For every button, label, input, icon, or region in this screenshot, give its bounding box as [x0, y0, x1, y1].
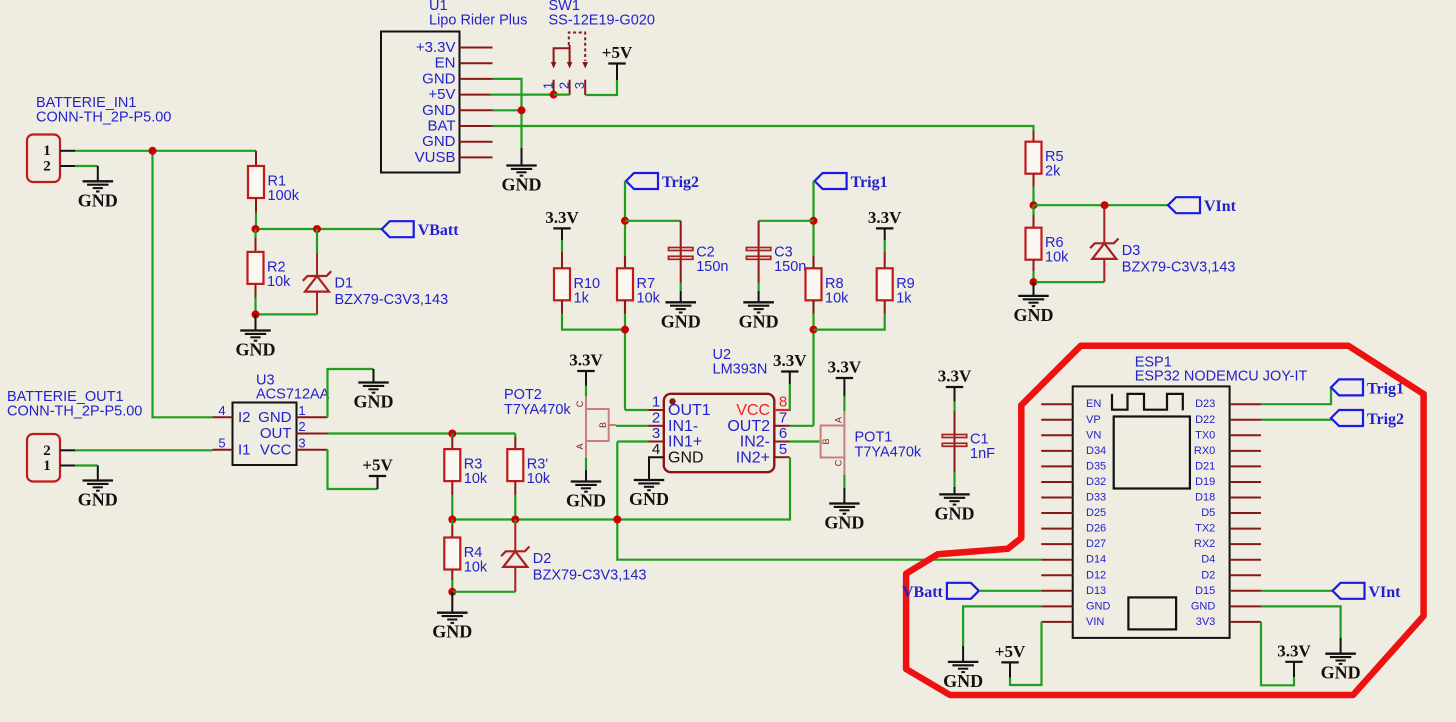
svg-text:ACS712AA: ACS712AA: [256, 387, 330, 403]
svg-text:T7YA470k: T7YA470k: [504, 402, 571, 418]
svg-text:GND: GND: [258, 409, 292, 426]
svg-text:IN1+: IN1+: [668, 434, 702, 451]
svg-text:IN2+: IN2+: [736, 449, 770, 466]
svg-text:D15: D15: [1195, 585, 1215, 597]
svg-text:GND: GND: [432, 622, 472, 642]
svg-text:Lipo Rider Plus: Lipo Rider Plus: [429, 13, 527, 29]
svg-text:GND: GND: [1086, 600, 1111, 612]
svg-text:BZX79-C3V3,143: BZX79-C3V3,143: [335, 292, 449, 308]
svg-text:+5V: +5V: [602, 43, 633, 62]
svg-text:6: 6: [779, 425, 787, 442]
svg-text:VIN: VIN: [1086, 616, 1104, 628]
svg-text:+5V: +5V: [428, 86, 455, 103]
svg-text:3.3V: 3.3V: [569, 351, 603, 370]
svg-text:3.3V: 3.3V: [773, 351, 807, 370]
svg-text:D19: D19: [1195, 476, 1215, 488]
svg-text:D3: D3: [1122, 243, 1141, 259]
svg-text:TX2: TX2: [1195, 523, 1215, 535]
svg-text:TX0: TX0: [1195, 429, 1215, 441]
svg-text:GND: GND: [629, 489, 669, 509]
svg-text:VCC: VCC: [736, 402, 770, 419]
svg-text:1: 1: [298, 403, 305, 418]
svg-text:4: 4: [218, 403, 225, 418]
svg-text:+3.3V: +3.3V: [416, 39, 456, 56]
svg-text:5: 5: [779, 441, 787, 458]
svg-text:7: 7: [779, 410, 787, 427]
svg-text:3: 3: [572, 82, 587, 89]
svg-text:GND: GND: [354, 392, 394, 412]
svg-text:D1: D1: [335, 276, 354, 292]
svg-text:GND: GND: [422, 70, 456, 87]
svg-text:I1: I1: [238, 441, 251, 458]
svg-text:D23: D23: [1195, 398, 1215, 410]
svg-text:GND: GND: [422, 133, 456, 150]
svg-text:3: 3: [652, 425, 660, 442]
svg-text:VBatt: VBatt: [418, 222, 460, 239]
svg-text:3.3V: 3.3V: [1277, 641, 1311, 660]
svg-text:D5: D5: [1201, 507, 1215, 519]
svg-text:D22: D22: [1195, 414, 1215, 426]
svg-text:EN: EN: [1086, 398, 1101, 410]
svg-text:GND: GND: [78, 190, 118, 210]
svg-text:A: A: [834, 417, 844, 423]
svg-text:3V3: 3V3: [1196, 616, 1216, 628]
svg-text:2k: 2k: [1045, 164, 1061, 180]
svg-text:LM393N: LM393N: [713, 362, 768, 378]
svg-text:+5V: +5V: [362, 456, 393, 475]
svg-text:D35: D35: [1086, 460, 1106, 472]
svg-text:1: 1: [652, 394, 660, 411]
svg-text:GND: GND: [236, 340, 276, 360]
svg-text:10k: 10k: [464, 471, 488, 487]
svg-text:150n: 150n: [696, 259, 728, 275]
svg-text:2: 2: [43, 443, 51, 459]
svg-text:10k: 10k: [464, 560, 488, 576]
svg-text:D2: D2: [533, 551, 552, 567]
svg-text:D13: D13: [1086, 585, 1106, 597]
svg-text:150n: 150n: [774, 259, 806, 275]
svg-text:GND: GND: [422, 102, 456, 119]
svg-text:D34: D34: [1086, 445, 1106, 457]
svg-text:1: 1: [541, 82, 556, 89]
svg-text:EN: EN: [435, 55, 456, 72]
svg-text:D27: D27: [1086, 538, 1106, 550]
svg-text:D12: D12: [1086, 569, 1106, 581]
svg-text:Trig1: Trig1: [851, 174, 888, 191]
svg-text:GND: GND: [943, 671, 983, 691]
svg-text:Trig2: Trig2: [662, 174, 699, 191]
svg-text:I2: I2: [238, 409, 251, 426]
svg-text:RX0: RX0: [1194, 445, 1215, 457]
svg-text:Trig1: Trig1: [1367, 380, 1404, 397]
svg-text:VBatt: VBatt: [902, 584, 944, 601]
svg-text:GND: GND: [824, 513, 864, 533]
svg-text:2: 2: [652, 410, 660, 427]
svg-text:D21: D21: [1195, 460, 1215, 472]
svg-text:C: C: [575, 400, 585, 407]
svg-text:2: 2: [298, 419, 305, 434]
svg-text:CONN-TH_2P-P5.00: CONN-TH_2P-P5.00: [7, 404, 142, 420]
svg-text:ESP32 NODEMCU JOY-IT: ESP32 NODEMCU JOY-IT: [1135, 369, 1308, 385]
svg-text:B: B: [598, 422, 608, 428]
svg-text:GND: GND: [668, 449, 704, 466]
svg-text:10k: 10k: [267, 274, 291, 290]
svg-text:GND: GND: [502, 175, 542, 195]
svg-text:GND: GND: [566, 491, 606, 511]
svg-text:VUSB: VUSB: [415, 149, 456, 166]
svg-text:10k: 10k: [825, 290, 849, 306]
svg-text:1k: 1k: [896, 290, 912, 306]
svg-text:POT1: POT1: [855, 430, 893, 446]
svg-text:5: 5: [218, 436, 225, 451]
svg-text:2: 2: [43, 159, 51, 175]
svg-text:VN: VN: [1086, 429, 1101, 441]
svg-text:D26: D26: [1086, 523, 1106, 535]
svg-text:D32: D32: [1086, 476, 1106, 488]
svg-text:OUT: OUT: [260, 425, 292, 442]
svg-text:OUT1: OUT1: [668, 402, 711, 419]
svg-text:10k: 10k: [1045, 250, 1069, 266]
svg-text:3.3V: 3.3V: [828, 358, 862, 377]
svg-text:CONN-TH_2P-P5.00: CONN-TH_2P-P5.00: [36, 110, 171, 126]
svg-text:1k: 1k: [574, 290, 590, 306]
svg-text:B: B: [821, 438, 831, 444]
svg-text:C: C: [834, 459, 844, 466]
svg-text:1nF: 1nF: [970, 446, 995, 462]
svg-text:VInt: VInt: [1204, 198, 1237, 215]
svg-text:GND: GND: [739, 311, 779, 331]
svg-text:D14: D14: [1086, 554, 1106, 566]
svg-text:POT2: POT2: [504, 387, 542, 403]
svg-text:10k: 10k: [527, 471, 551, 487]
svg-text:+5V: +5V: [995, 642, 1026, 661]
svg-text:GND: GND: [935, 503, 975, 523]
svg-text:VInt: VInt: [1369, 584, 1402, 601]
svg-text:3.3V: 3.3V: [545, 208, 579, 227]
svg-text:D18: D18: [1195, 492, 1215, 504]
svg-text:BZX79-C3V3,143: BZX79-C3V3,143: [1122, 259, 1236, 275]
svg-text:1: 1: [43, 458, 51, 474]
svg-text:GND: GND: [1321, 663, 1361, 683]
svg-text:T7YA470k: T7YA470k: [855, 445, 922, 461]
svg-text:GND: GND: [1014, 305, 1054, 325]
svg-text:VCC: VCC: [260, 441, 292, 458]
svg-text:GND: GND: [661, 311, 701, 331]
svg-text:OUT2: OUT2: [727, 418, 770, 435]
svg-text:3.3V: 3.3V: [938, 367, 972, 386]
svg-text:GND: GND: [78, 490, 118, 510]
svg-text:BAT: BAT: [427, 118, 455, 135]
svg-text:D25: D25: [1086, 507, 1106, 519]
svg-text:BZX79-C3V3,143: BZX79-C3V3,143: [533, 567, 647, 583]
svg-text:GND: GND: [1191, 600, 1216, 612]
svg-text:A: A: [575, 443, 585, 449]
svg-text:2: 2: [557, 82, 572, 89]
svg-text:RX2: RX2: [1194, 538, 1215, 550]
svg-text:8: 8: [779, 394, 787, 411]
svg-text:1: 1: [43, 143, 51, 159]
svg-text:IN2-: IN2-: [740, 434, 770, 451]
svg-text:VP: VP: [1086, 414, 1101, 426]
svg-text:Trig2: Trig2: [1367, 411, 1404, 428]
svg-text:D33: D33: [1086, 492, 1106, 504]
svg-text:SS-12E19-G020: SS-12E19-G020: [549, 13, 655, 29]
svg-text:3: 3: [298, 435, 305, 450]
svg-text:10k: 10k: [637, 290, 661, 306]
svg-text:3.3V: 3.3V: [868, 208, 902, 227]
svg-text:D4: D4: [1201, 554, 1215, 566]
svg-text:4: 4: [652, 441, 660, 458]
svg-text:D2: D2: [1201, 569, 1215, 581]
svg-text:IN1-: IN1-: [668, 418, 698, 435]
svg-text:100k: 100k: [268, 188, 300, 204]
